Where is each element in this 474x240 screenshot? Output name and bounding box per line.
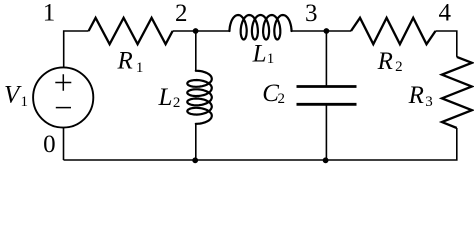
capacitor C2 top plate [297,85,357,88]
svg-text:1: 1 [43,0,56,27]
svg-text:0: 0 [43,131,56,158]
svg-text:2: 2 [395,59,403,75]
resistor R1 [89,18,173,44]
svg-text:L: L [158,84,173,111]
wire: node3 down to C2 [325,31,327,87]
minus sign [56,107,71,109]
svg-text:1: 1 [136,60,144,76]
plus sign [55,74,71,91]
wire: L2 to bottom [195,124,197,160]
svg-text:3: 3 [425,94,433,110]
node 2 junction dot [193,28,199,34]
inductor L1 [230,15,292,40]
wire: R3 to bottom-right corner [64,128,457,160]
svg-text:1: 1 [267,51,275,67]
svg-text:2: 2 [278,91,286,107]
svg-text:2: 2 [173,95,181,111]
wire: R2 to node4 corner down to R3 [436,31,457,57]
svg-text:L: L [252,40,267,67]
wire top: node1 to R1 [64,31,89,68]
voltage source V1 circle [33,67,93,127]
bottom junction dot under L2 [192,157,198,163]
wire: C2 to bottom [325,104,327,160]
inductor L2 [187,71,212,124]
wire: L1 to node3 to R2 [292,30,352,32]
svg-text:3: 3 [305,0,318,27]
svg-text:V: V [4,82,22,109]
svg-text:1: 1 [21,94,29,110]
svg-text:R: R [377,48,393,75]
node 3 junction dot [324,28,330,34]
svg-text:R: R [408,82,424,109]
resistor R3 [442,57,472,128]
svg-text:4: 4 [438,0,451,26]
svg-text:2: 2 [175,0,188,27]
wire: node2 down to L2 [195,31,197,71]
capacitor C2 bottom plate [297,103,357,106]
wire: R1 to node2 to L1 [173,30,230,32]
resistor R2 [351,18,436,44]
svg-text:R: R [117,48,133,75]
bottom junction dot under C2 [323,157,329,163]
wire: bottom-left up to source [63,128,65,161]
